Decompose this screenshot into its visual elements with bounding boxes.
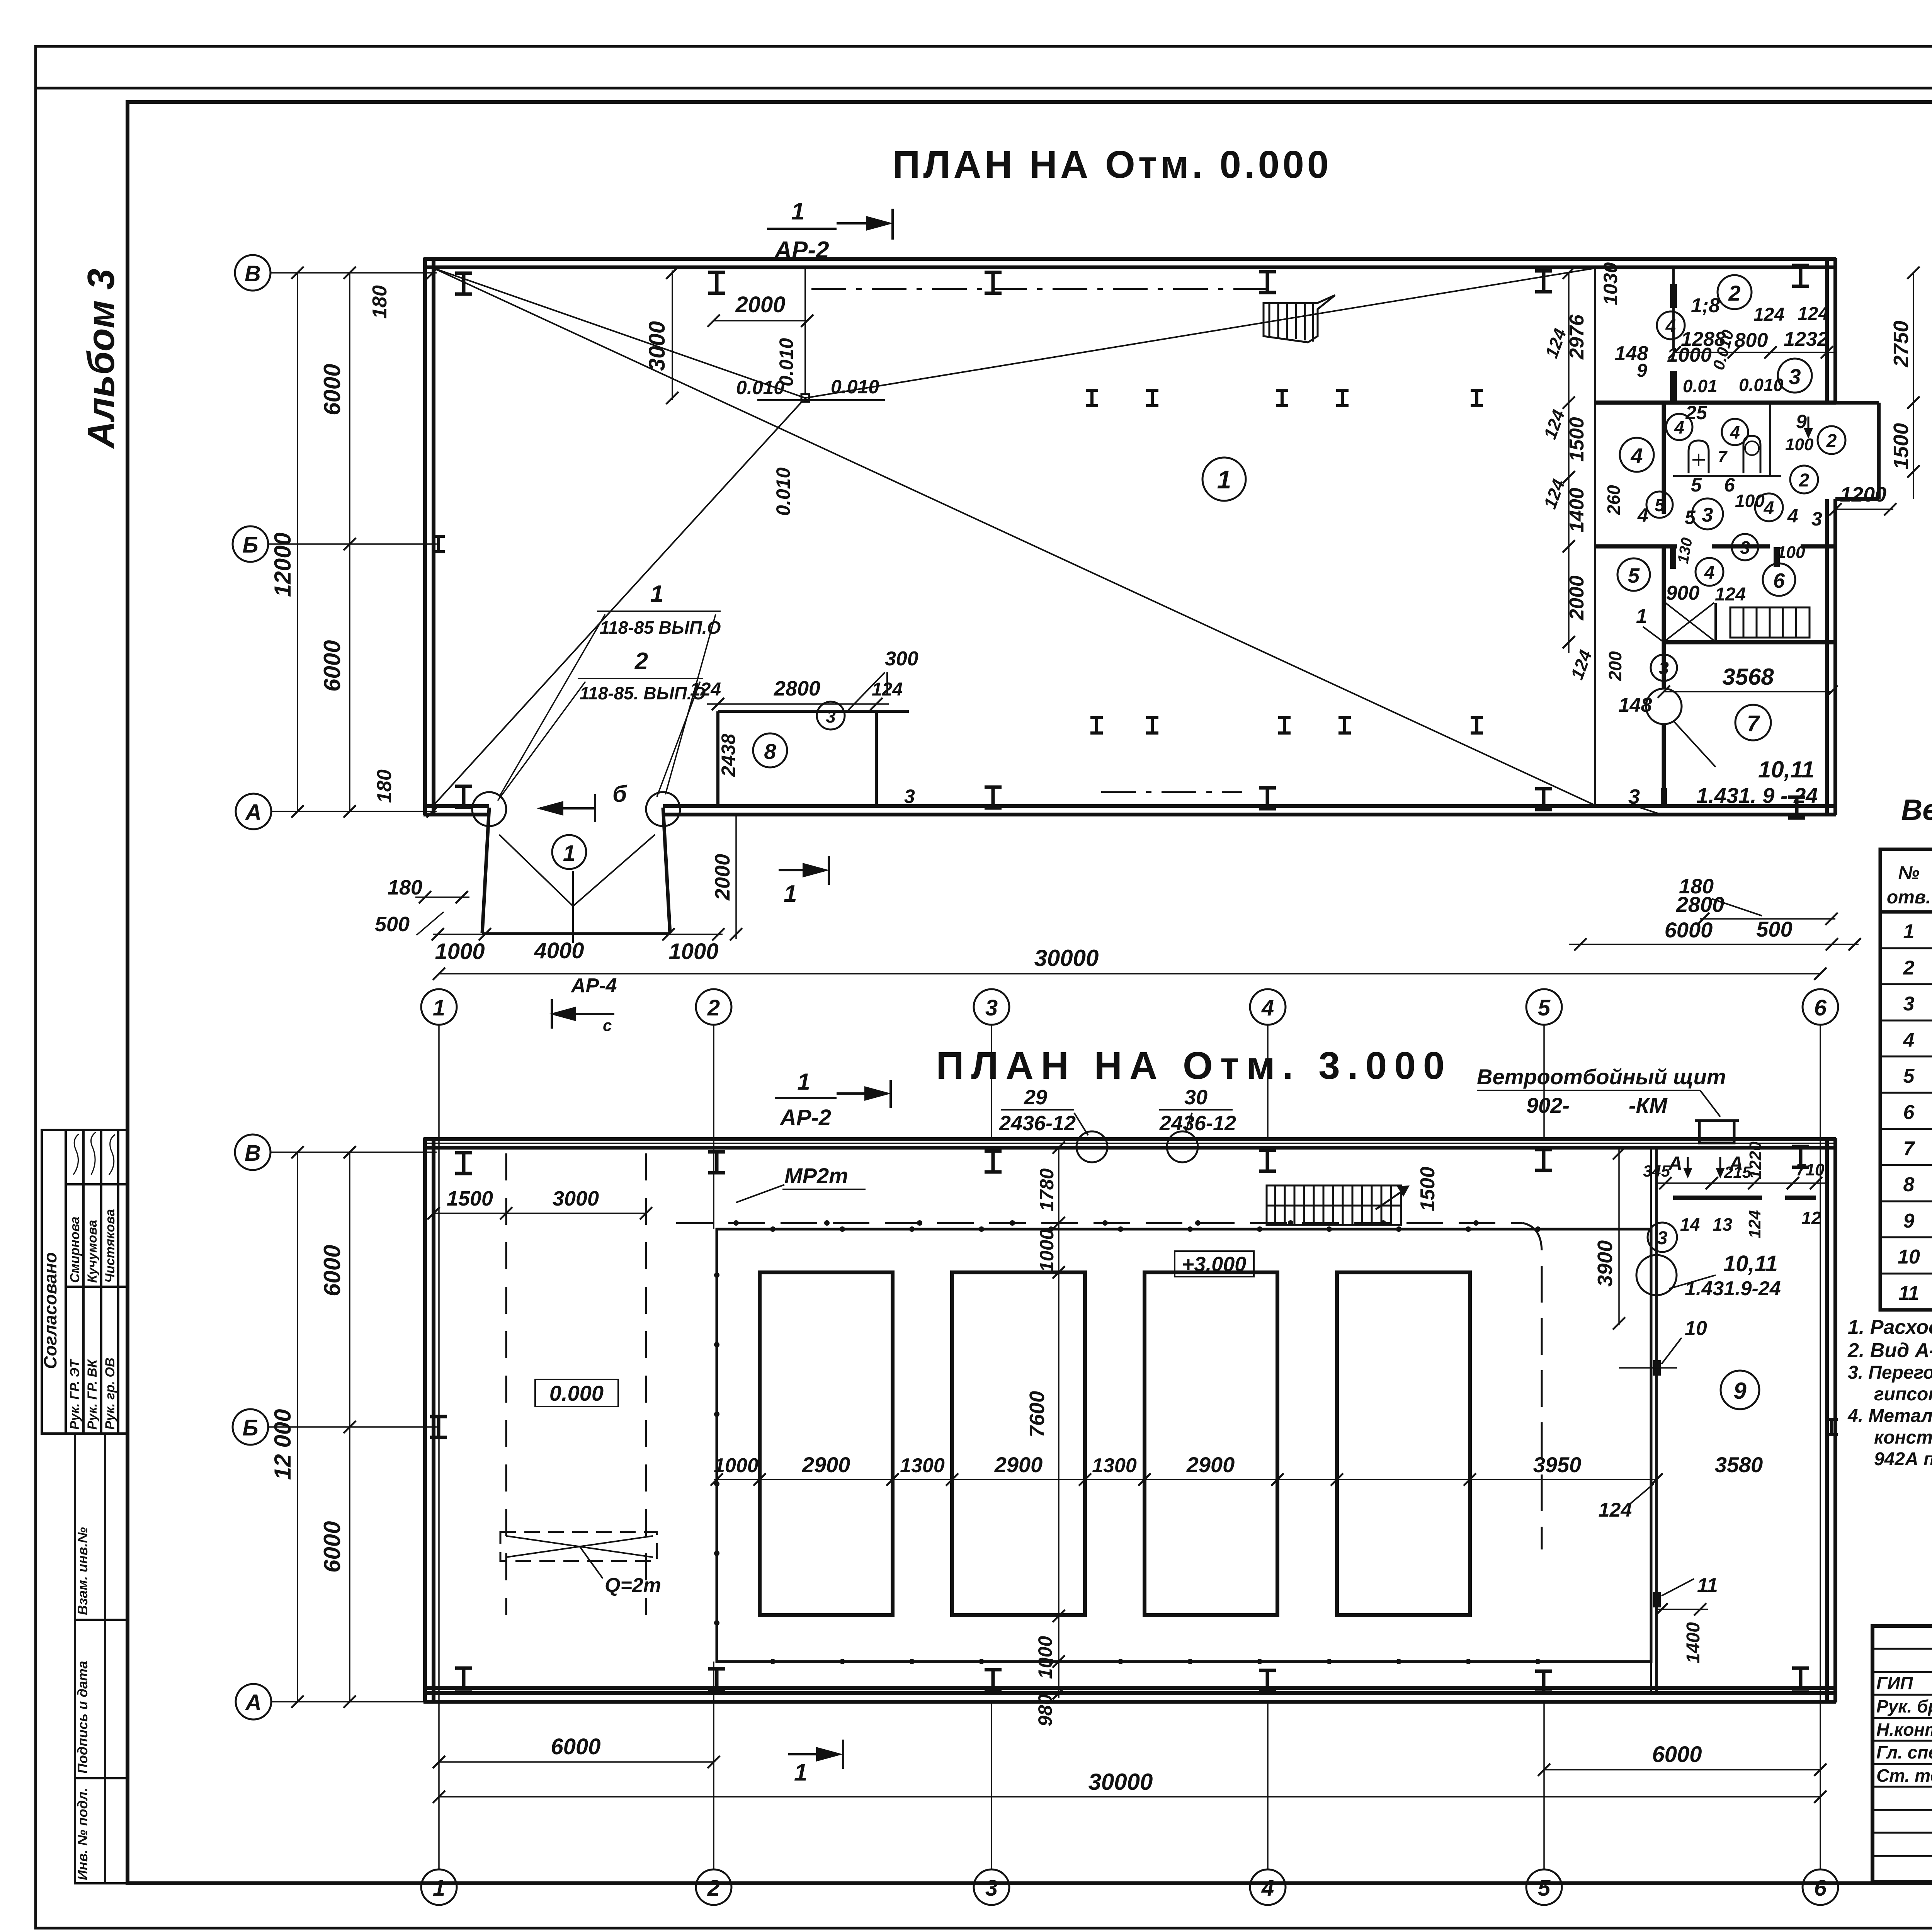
svg-text:4: 4 [1903, 1029, 1915, 1051]
svg-text:1.431.9-24: 1.431.9-24 [1685, 1277, 1781, 1300]
svg-text:6000: 6000 [319, 1521, 345, 1573]
roof slope point [801, 394, 809, 402]
svg-text:6000: 6000 [1665, 918, 1713, 942]
svg-text:№: № [1898, 863, 1919, 883]
svg-text:Ст. техн.: Ст. техн. [1876, 1765, 1932, 1786]
top row I-beam columns [455, 273, 472, 294]
svg-text:300: 300 [885, 648, 918, 670]
svg-text:30000: 30000 [1088, 1769, 1153, 1795]
svg-text:5: 5 [1655, 495, 1665, 515]
svg-text:5: 5 [1538, 1876, 1551, 1901]
svg-text:5: 5 [1685, 507, 1696, 528]
svg-text:3: 3 [1811, 508, 1822, 530]
stair hatch band [1267, 1185, 1401, 1225]
svg-text:14: 14 [1680, 1214, 1700, 1235]
svg-text:4000: 4000 [534, 938, 584, 963]
svg-text:12000: 12000 [270, 532, 296, 597]
room 1 circle [1202, 457, 1246, 501]
svg-text:Инв. № подл.: Инв. № подл. [75, 1788, 90, 1880]
AP-4 section mark mid [552, 999, 614, 1029]
svg-text:118-85 ВЫП.О: 118-85 ВЫП.О [600, 617, 721, 638]
svg-text:6000: 6000 [1652, 1742, 1702, 1767]
svg-text:4: 4 [1787, 505, 1798, 527]
svg-text:Q=2т: Q=2т [605, 1574, 661, 1597]
svg-text:12 000: 12 000 [270, 1409, 296, 1480]
svg-text:3: 3 [1740, 537, 1750, 558]
axis circles 1-6 mid row [421, 989, 457, 1025]
svg-text:3000: 3000 [645, 321, 670, 371]
svg-text:6: 6 [1773, 569, 1785, 592]
svg-text:3: 3 [1628, 785, 1640, 808]
svg-text:1: 1 [794, 1759, 807, 1786]
holes table left [1880, 849, 1932, 1310]
svg-text:100: 100 [1735, 491, 1765, 511]
svg-text:11: 11 [1697, 1574, 1718, 1597]
svg-text:2. Вид А-А смотреть НА: 2. Вид А-А смотреть НА листе АР-2 [1847, 1339, 1932, 1362]
small partition near 900 duct [1714, 603, 1717, 642]
svg-text:1000: 1000 [1034, 1636, 1056, 1679]
svg-text:1500: 1500 [447, 1187, 493, 1210]
gate post circles [472, 792, 506, 826]
svg-text:500: 500 [1756, 917, 1792, 941]
dim 3000 vertical [672, 270, 673, 400]
interior fachwerk I-beams row 2 [1090, 718, 1103, 733]
holes table left rows [1898, 920, 1932, 1308]
svg-text:Ветроотбойный щит: Ветроотбойный щит [1477, 1065, 1726, 1089]
svg-text:1.431. 9 - 24: 1.431. 9 - 24 [1696, 783, 1818, 808]
svg-text:Гл. спец.: Гл. спец. [1876, 1742, 1932, 1762]
notes [1847, 1316, 1932, 1469]
svg-text:1: 1 [791, 198, 804, 225]
slope diagonals [434, 267, 1595, 805]
dim ticks on block wall [1568, 273, 1570, 653]
tank dim row [714, 1479, 1656, 1480]
plan2 bottom axis circles [421, 1869, 457, 1905]
svg-text:1232: 1232 [1784, 328, 1828, 350]
leader to 10,11 label [1673, 721, 1716, 767]
svg-text:6000: 6000 [319, 1245, 345, 1296]
axis drop lines plan2 [439, 1025, 1820, 1869]
room 8 labels [707, 703, 889, 705]
svg-text:1400: 1400 [1683, 1622, 1704, 1663]
svg-text:2750: 2750 [1889, 321, 1913, 367]
svg-text:3: 3 [985, 1876, 998, 1901]
svg-text:2800: 2800 [1676, 892, 1725, 917]
svg-text:7: 7 [1747, 711, 1760, 736]
svg-text:1: 1 [433, 995, 445, 1020]
svg-text:2436-12: 2436-12 [1159, 1112, 1236, 1135]
svg-text:1000: 1000 [714, 1454, 759, 1477]
svg-text:1;8: 1;8 [1691, 294, 1720, 317]
svg-text:8: 8 [1903, 1173, 1915, 1196]
svg-text:0.010: 0.010 [776, 338, 797, 386]
svg-text:Альбом 3: Альбом 3 [80, 269, 122, 449]
svg-text:2: 2 [1799, 470, 1810, 491]
svg-text:2438: 2438 [718, 734, 739, 777]
svg-text:0.01: 0.01 [1683, 376, 1718, 396]
svg-text:1: 1 [650, 581, 663, 607]
svg-text:1200: 1200 [1840, 483, 1886, 506]
svg-text:3: 3 [1903, 993, 1915, 1015]
svg-text:200: 200 [1605, 651, 1625, 681]
svg-text:0.010: 0.010 [1739, 375, 1784, 395]
svg-text:2900: 2900 [1186, 1452, 1235, 1477]
svg-text:В: В [245, 1141, 261, 1166]
partition wall y1662 [1664, 640, 1836, 645]
wc toilet 1 [1689, 440, 1709, 473]
rooms block left wall [1594, 267, 1596, 806]
svg-text:МР2т: МР2т [784, 1163, 848, 1188]
svg-text:Согласовано: Согласовано [40, 1252, 60, 1369]
0.000 boxed label [535, 1379, 618, 1406]
svg-text:12: 12 [1801, 1208, 1821, 1228]
dash-dot rail line through hall [811, 288, 1267, 290]
svg-text:1: 1 [797, 1069, 810, 1095]
svg-text:1220: 1220 [1746, 1141, 1765, 1179]
svg-text:ПЛАН НА Отм. 0.000: ПЛАН НА Отм. 0.000 [892, 143, 1332, 186]
svg-text:180: 180 [369, 285, 391, 319]
+3.000 boxed [1175, 1251, 1254, 1277]
svg-text:6000: 6000 [551, 1734, 600, 1759]
bottom wall with gate opening [423, 804, 489, 808]
svg-text:б: б [612, 781, 628, 807]
top dim line rooms block [1675, 352, 1835, 353]
annex right [1835, 401, 1879, 405]
svg-text:3: 3 [1702, 504, 1713, 526]
svg-text:0.010: 0.010 [831, 376, 879, 398]
svg-text:9: 9 [1637, 361, 1647, 381]
left wall [423, 258, 427, 815]
left margin stamp: Soglasovano block [42, 1130, 128, 1434]
svg-text:2000: 2000 [711, 854, 734, 901]
svg-text:8: 8 [764, 739, 776, 764]
vertical dim 3900 right [1618, 1148, 1620, 1325]
svg-text:10,11: 10,11 [1723, 1251, 1778, 1276]
plan2 I-beams [455, 1153, 472, 1173]
svg-text:1: 1 [784, 881, 797, 907]
partition wall y1414 [1595, 544, 1677, 549]
dim ticks left [291, 267, 304, 279]
svg-text:148: 148 [1619, 694, 1652, 716]
room circles block [1718, 275, 1752, 309]
svg-text:800: 800 [1735, 329, 1768, 352]
svg-text:1: 1 [1636, 605, 1647, 628]
axis lines left [268, 273, 437, 811]
svg-text:1000: 1000 [435, 939, 485, 964]
svg-text:4: 4 [1261, 995, 1274, 1020]
dim 2000 at slope point [714, 320, 807, 321]
svg-text:25: 25 [1685, 402, 1708, 423]
tanks 4 [760, 1272, 1470, 1615]
left margin stamp: lower cells [75, 1434, 128, 1883]
signature squiggles [73, 1134, 79, 1175]
svg-text:В: В [245, 261, 261, 286]
svg-text:5: 5 [1628, 564, 1640, 587]
right wall [1825, 258, 1829, 403]
svg-text:Чистякова: Чистякова [103, 1209, 117, 1283]
svg-text:10: 10 [1685, 1317, 1707, 1340]
svg-text:13: 13 [1713, 1214, 1733, 1235]
svg-text:1500: 1500 [1417, 1167, 1439, 1211]
wc partition [1769, 403, 1771, 476]
svg-text:6: 6 [1814, 995, 1827, 1020]
plan2 partition x4287 [1655, 1148, 1658, 1693]
svg-text:5: 5 [1538, 995, 1551, 1020]
svg-text:10,11: 10,11 [1758, 757, 1815, 782]
svg-text:4: 4 [1730, 422, 1740, 442]
svg-text:4: 4 [1704, 563, 1715, 583]
svg-text:5: 5 [1903, 1065, 1915, 1087]
svg-text:3: 3 [1657, 1228, 1668, 1248]
svg-text:7: 7 [1903, 1138, 1915, 1160]
wc toilet 2 [1745, 441, 1759, 455]
wind shield chimney [1699, 1121, 1734, 1143]
gate dims 1000 4000 1000 [433, 934, 723, 935]
svg-text:Б: Б [242, 1415, 258, 1440]
svg-text:АР-4: АР-4 [570, 975, 617, 997]
svg-text:2: 2 [1728, 281, 1740, 305]
svg-text:Рук. ГР. ЭТ: Рук. ГР. ЭТ [68, 1359, 82, 1430]
gate circled 1 [552, 835, 586, 869]
dim 1500 3000 top left plan2 [434, 1213, 646, 1214]
svg-text:6: 6 [1903, 1101, 1915, 1124]
svg-text:900: 900 [1666, 582, 1700, 604]
svg-text:2900: 2900 [994, 1452, 1043, 1477]
lockers row [1730, 607, 1810, 638]
vertical partition x4306 [1662, 403, 1666, 514]
svg-text:0.010: 0.010 [772, 468, 794, 516]
svg-text:Смирнова: Смирнова [68, 1216, 82, 1283]
gate leader V [499, 835, 655, 943]
svg-text:3: 3 [985, 995, 998, 1020]
svg-text:конструкциям здания при пом: конструкциям здания при помощи сварки эл… [1874, 1427, 1932, 1448]
svg-text:3: 3 [1659, 658, 1669, 678]
svg-text:1030: 1030 [1600, 262, 1621, 305]
building walls plan1: top wall [423, 258, 1879, 815]
svg-text:124: 124 [1599, 1499, 1632, 1521]
staff names [1876, 1673, 1932, 1786]
svg-text:1300: 1300 [900, 1454, 945, 1477]
plan2 axis lines left [268, 1152, 437, 1702]
svg-text:7600: 7600 [1026, 1391, 1049, 1437]
label leaders to gate posts [498, 614, 716, 801]
svg-text:4: 4 [1764, 498, 1774, 519]
svg-text:124: 124 [690, 679, 721, 700]
plan1 30000 dim [439, 973, 1820, 975]
hatched pit flag [1264, 295, 1335, 342]
svg-text:2800: 2800 [774, 677, 820, 700]
svg-text:гипсокартонными листами с: гипсокартонными листами с двух сторон. [1874, 1384, 1932, 1405]
partition wall y1042 [1595, 401, 1836, 405]
bottom row I-beam columns [455, 786, 472, 807]
tank room big rect [717, 1229, 1651, 1662]
svg-text:+3.000: +3.000 [1182, 1253, 1247, 1276]
svg-text:1. Расход L50x5 по ГОСТ 850: 1. Расход L50x5 по ГОСТ 8509-86 - 3.50 п… [1848, 1316, 1932, 1338]
svg-text:10: 10 [1898, 1246, 1920, 1268]
room 9 circle [1721, 1371, 1759, 1409]
svg-text:1: 1 [563, 841, 575, 866]
top band line [36, 87, 1932, 90]
section mark 1 bottom [779, 856, 829, 885]
svg-text:ПЛАН НА Отм. 3.000: ПЛАН НА Отм. 3.000 [936, 1044, 1452, 1087]
svg-text:3000: 3000 [553, 1187, 599, 1210]
vertical dims x2740 [1058, 1148, 1060, 1698]
svg-text:3: 3 [904, 786, 915, 807]
svg-text:1000: 1000 [1036, 1229, 1058, 1272]
svg-text:Взам. инв.№: Взам. инв.№ [75, 1527, 90, 1615]
svg-text:3. Перегородку б=148мм на отм.: 3. Перегородку б=148мм на отм. 0.000 вып… [1848, 1362, 1932, 1383]
svg-text:3580: 3580 [1715, 1452, 1763, 1477]
svg-text:Подпись и дата: Подпись и дата [75, 1661, 90, 1774]
svg-text:1300: 1300 [1092, 1454, 1137, 1477]
svg-text:Рук. бр.: Рук. бр. [1876, 1696, 1932, 1716]
svg-text:АР-2: АР-2 [779, 1105, 831, 1130]
svg-text:4: 4 [1665, 316, 1676, 337]
plan2 bottom dims [439, 1761, 714, 1763]
section mark 1/AP-2 top [767, 209, 893, 240]
svg-text:Б: Б [242, 532, 258, 558]
axis circle B(mid) [233, 526, 268, 562]
staff table grid [1872, 1649, 1932, 1856]
svg-text:3900: 3900 [1594, 1240, 1617, 1287]
svg-text:124: 124 [1745, 1210, 1764, 1238]
svg-text:-КМ: -КМ [1629, 1093, 1668, 1117]
svg-text:Н.контр.: Н.контр. [1876, 1719, 1932, 1740]
svg-text:124: 124 [1798, 304, 1828, 324]
gate posts and apron [482, 808, 670, 933]
svg-text:2: 2 [1826, 431, 1837, 451]
svg-text:180: 180 [388, 876, 422, 899]
axis circle A [236, 794, 271, 829]
svg-text:9: 9 [1733, 1378, 1747, 1404]
circled 3 with opening plan2 [1648, 1223, 1677, 1252]
svg-text:отв.: отв. [1887, 887, 1931, 908]
svg-text:30000: 30000 [1034, 945, 1099, 971]
svg-text:А: А [245, 800, 262, 825]
svg-text:4: 4 [1261, 1876, 1274, 1901]
svg-text:ГИП: ГИП [1876, 1673, 1913, 1693]
lintel bars [1673, 1196, 1762, 1200]
svg-text:1: 1 [433, 1876, 445, 1901]
svg-text:1500: 1500 [1889, 423, 1913, 469]
svg-text:Ведомость отверстий: Ведомость отверстий [1901, 794, 1932, 827]
axis circle B [235, 255, 270, 291]
dim 1200 annex [1835, 509, 1893, 510]
section mark 1 below plan2 [788, 1740, 843, 1769]
svg-text:1: 1 [1217, 465, 1231, 494]
crane rail dashed columns [505, 1153, 507, 1615]
room 8 operator box [718, 711, 909, 806]
svg-text:5: 5 [1691, 474, 1702, 496]
svg-text:902-: 902- [1526, 1093, 1570, 1117]
plan2 building walls [423, 1138, 1836, 1702]
svg-text:2: 2 [707, 1876, 720, 1901]
svg-text:А: А [245, 1690, 262, 1715]
svg-text:Кучумова: Кучумова [85, 1220, 100, 1283]
right side dims of plan1 [1913, 273, 1914, 499]
svg-text:2000: 2000 [735, 292, 785, 317]
svg-text:180: 180 [373, 769, 396, 803]
svg-text:6: 6 [1724, 474, 1735, 496]
svg-text:100: 100 [1777, 543, 1805, 562]
svg-text:3568: 3568 [1722, 664, 1774, 690]
svg-text:100: 100 [1785, 435, 1814, 454]
svg-text:29: 29 [1024, 1086, 1047, 1109]
svg-text:4: 4 [1674, 417, 1684, 437]
svg-text:1780: 1780 [1036, 1168, 1058, 1211]
svg-text:3: 3 [1789, 364, 1801, 389]
svg-text:6: 6 [1814, 1876, 1827, 1901]
svg-text:9: 9 [1903, 1210, 1915, 1232]
svg-text:3950: 3950 [1533, 1452, 1582, 1477]
svg-text:345: 345 [1643, 1162, 1670, 1180]
svg-text:6000: 6000 [319, 364, 345, 415]
svg-text:2: 2 [634, 648, 648, 675]
svg-text:2: 2 [707, 995, 720, 1020]
fixture bench line [1673, 475, 1781, 477]
svg-text:500: 500 [375, 913, 410, 936]
plan2 axis circles left [235, 1134, 270, 1170]
svg-text:118-85. ВЫП.О: 118-85. ВЫП.О [580, 683, 706, 703]
opening 11 mark [1653, 1592, 1661, 1607]
svg-text:11: 11 [1898, 1282, 1919, 1304]
interior fachwerk I-beams row 1 [1086, 390, 1098, 406]
svg-text:4: 4 [1637, 504, 1648, 526]
svg-text:124: 124 [1753, 304, 1784, 325]
duct X cross [1665, 603, 1714, 641]
section mark 1/AP-2 plan2 [775, 1080, 891, 1108]
svg-text:6000: 6000 [319, 640, 345, 692]
svg-text:0.000: 0.000 [549, 1381, 604, 1405]
svg-text:с: с [603, 1016, 612, 1034]
Б axis wall tick [432, 536, 445, 552]
svg-text:942А по ГОСТ 9467- 75.: 942А по ГОСТ 9467- 75. [1874, 1449, 1932, 1469]
svg-text:2: 2 [1903, 957, 1915, 979]
svg-text:260: 260 [1604, 485, 1624, 515]
svg-text:7: 7 [1718, 447, 1728, 466]
svg-text:2900: 2900 [802, 1452, 850, 1477]
svg-text:1000: 1000 [1667, 344, 1712, 366]
svg-text:3: 3 [826, 706, 836, 726]
svg-text:Рук. гр. ОВ: Рук. гр. ОВ [103, 1357, 117, 1430]
Q=2t hoist symbol [500, 1532, 657, 1561]
section b mark [540, 794, 595, 822]
room2 left partition stub [1672, 267, 1675, 350]
door leaf blobs [1670, 284, 1677, 308]
svg-text:Рук. ГР. ВК: Рук. ГР. ВК [85, 1359, 100, 1430]
svg-text:2436-12: 2436-12 [999, 1112, 1076, 1135]
svg-text:124: 124 [1715, 584, 1746, 605]
svg-text:1: 1 [1903, 920, 1915, 943]
svg-text:4: 4 [1630, 444, 1643, 468]
svg-text:30: 30 [1184, 1086, 1207, 1109]
opening 10 mark [1653, 1360, 1661, 1376]
svg-text:1000: 1000 [668, 939, 718, 964]
opening circle on partition room7 [1646, 689, 1682, 724]
svg-text:4. Металлический каркас пере: 4. Металлический каркас перегородок креп… [1847, 1406, 1932, 1426]
